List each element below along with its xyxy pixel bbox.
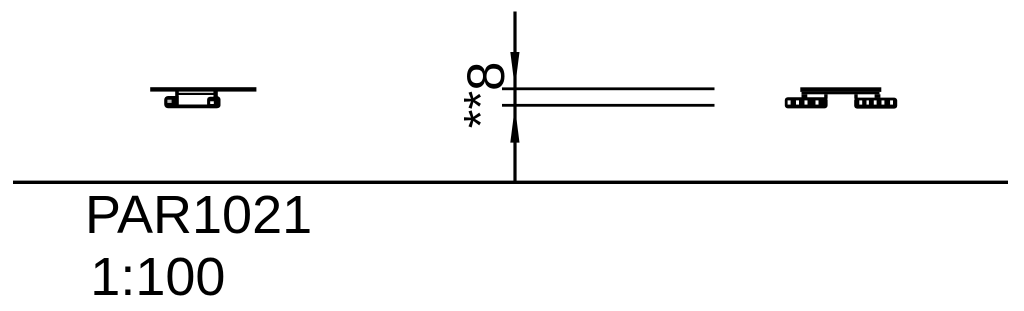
svg-text:PAR1021: PAR1021 — [85, 185, 312, 245]
left view: top plate — [150, 87, 256, 91]
right view: left foot slots — [788, 100, 819, 104]
section line top — [502, 87, 715, 90]
ground line — [13, 181, 1008, 184]
right view: right inner post — [854, 94, 857, 99]
right view: band under plate — [802, 92, 880, 94]
dimension arrow down — [510, 52, 519, 88]
left view: box top wall — [177, 93, 215, 95]
right view: top plate — [800, 87, 881, 92]
right view: right foot slots — [859, 100, 893, 104]
left view: right post — [213, 91, 217, 97]
left view: slot in right block — [210, 101, 214, 104]
right view: left outer post — [802, 94, 808, 98]
section line bottom — [502, 104, 715, 107]
right view: right foot — [854, 98, 897, 109]
svg-text:8: 8 — [457, 62, 516, 91]
left view: left post — [175, 91, 179, 96]
left view: base (blocks + bottom rail) — [164, 96, 220, 108]
left view: white window — [179, 95, 214, 105]
svg-text:1:100: 1:100 — [90, 247, 225, 307]
left view: slot in left block — [167, 100, 171, 103]
svg-text:**: ** — [455, 91, 508, 128]
right view: right outer post — [875, 94, 881, 98]
dimension arrow up — [510, 107, 519, 143]
right view: left foot — [785, 97, 828, 108]
left view: right block — [207, 97, 220, 108]
dimension vertical line — [513, 12, 516, 183]
right view: left inner post — [824, 94, 827, 99]
